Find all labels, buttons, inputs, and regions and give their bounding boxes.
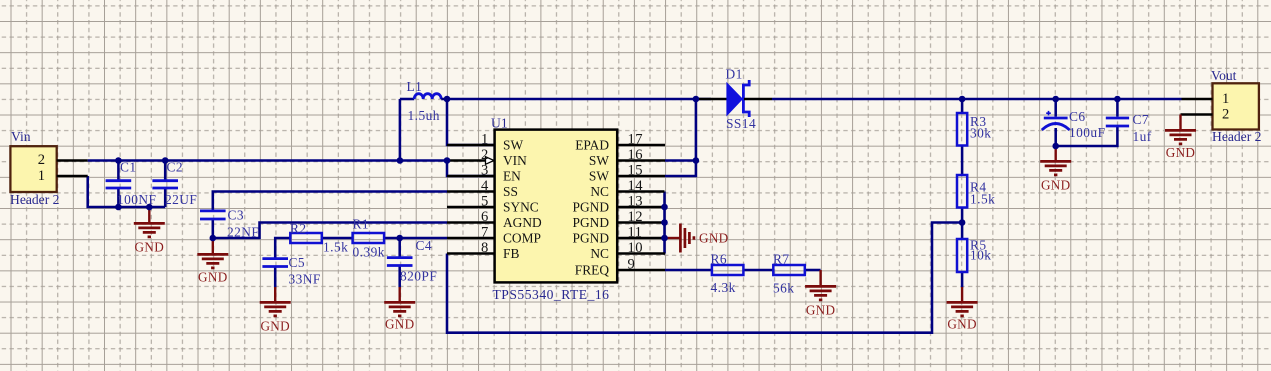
ground GND under C6 — [1040, 146, 1071, 193]
svg-text:C3: C3 — [228, 208, 245, 223]
ground GND sideways at PGND pins — [665, 224, 729, 253]
pin 9 FREQ of U1 — [575, 257, 665, 278]
wire R7 to ground corner — [806, 269, 821, 272]
wire C5 bottom lead — [274, 267, 277, 288]
svg-text:R2: R2 — [290, 221, 307, 236]
wire C7 top lead — [1116, 99, 1119, 117]
svg-text:56k: 56k — [773, 281, 794, 296]
pin 4 SS of U1 — [447, 178, 518, 199]
svg-text:Header 2: Header 2 — [10, 192, 60, 207]
svg-text:PGND: PGND — [573, 215, 610, 230]
pin 12 PGND of U1 — [573, 209, 665, 230]
svg-text:C7: C7 — [1133, 112, 1150, 127]
wire C4 top lead — [398, 238, 401, 257]
svg-text:FREQ: FREQ — [575, 263, 610, 278]
node L1 right SW junction — [444, 96, 451, 103]
pin 13 PGND of U1 — [573, 194, 665, 215]
wire C1 top lead — [117, 161, 120, 181]
wire C2 bottom lead — [164, 189, 167, 207]
wire C1 bottom lead — [117, 189, 120, 207]
svg-text:L1: L1 — [407, 79, 423, 94]
ground GND under C1 C2 — [134, 207, 165, 255]
wire R1 to C4 node to U1 pin 7 — [384, 237, 447, 240]
wire FREQ U1 pin 9 to R6 — [665, 269, 712, 272]
pin 6 AGND of U1 — [447, 209, 542, 230]
wire VIN rail from Vin header pin 2 to U1 pin 2 — [88, 159, 447, 162]
svg-text:GND: GND — [947, 317, 976, 332]
svg-text:VIN: VIN — [503, 153, 527, 168]
svg-text:GND: GND — [198, 270, 227, 285]
pin 15 SW of U1 — [589, 163, 665, 184]
ground GND under R5 — [947, 287, 978, 332]
svg-text:C1: C1 — [120, 160, 137, 175]
node SW pin16 junction — [693, 157, 700, 164]
svg-text:15: 15 — [628, 163, 643, 179]
wire Vin pin1 to ground bus under C1 C2 — [88, 176, 166, 207]
wire R3 top lead — [961, 99, 964, 113]
wire PGND bus U1 pins 14 13 12 11 10 — [663, 192, 666, 254]
svg-text:1uf: 1uf — [1133, 129, 1152, 144]
IC U1 TPS55340 body — [491, 116, 617, 303]
node pin12 PGND junction — [661, 219, 668, 226]
svg-text:SW: SW — [589, 153, 609, 168]
ground GND under R7 — [805, 270, 836, 318]
svg-text:EPAD: EPAD — [575, 138, 609, 153]
diode D1 SS14 schottky — [696, 67, 772, 132]
ground GND under C3 — [197, 238, 228, 285]
svg-text:100uF: 100uF — [1069, 125, 1105, 140]
wire R4 to junction lead — [961, 208, 964, 223]
inductor L1 — [400, 79, 447, 123]
svg-text:Header 2: Header 2 — [1212, 129, 1262, 144]
pin 2 of Vin header — [38, 152, 88, 168]
wire C2 top lead — [164, 161, 167, 181]
svg-text:30k: 30k — [970, 126, 991, 141]
svg-text:SW: SW — [503, 138, 523, 153]
svg-text:1.5k: 1.5k — [970, 192, 995, 207]
capacitor C4 — [387, 238, 437, 284]
wire C6 top lead — [1054, 99, 1057, 117]
wire R6 to R7 segment — [743, 269, 773, 272]
svg-text:10k: 10k — [970, 248, 991, 263]
svg-text:1: 1 — [1222, 91, 1230, 107]
node Vout port label — [1211, 68, 1237, 83]
node C1 top junction — [115, 157, 122, 164]
pin 7 COMP of U1 — [447, 225, 541, 246]
svg-text:NC: NC — [590, 246, 609, 261]
svg-text:22UF: 22UF — [165, 192, 197, 207]
svg-text:FB: FB — [503, 246, 519, 261]
svg-text:C4: C4 — [416, 238, 433, 253]
svg-text:7: 7 — [481, 225, 489, 241]
wire SW pin 15 branch — [665, 161, 696, 177]
node R3 top junction — [959, 96, 966, 103]
node C6 bottom junction — [1052, 143, 1059, 150]
svg-text:12: 12 — [628, 209, 643, 225]
node C3 bottom AGND junction — [210, 235, 217, 242]
svg-text:R6: R6 — [711, 252, 728, 267]
resistor R7 — [773, 252, 805, 296]
pin 10 NC of U1 — [590, 240, 665, 261]
node Vin port label — [11, 129, 31, 144]
connector J Vin header body — [10, 146, 56, 192]
svg-text:22NF: 22NF — [227, 225, 259, 240]
svg-text:13: 13 — [628, 194, 643, 210]
pin 1 of Vout header — [1182, 91, 1230, 107]
node pin11 PGND junction — [661, 235, 668, 242]
wire top rail L1 to D1 anode — [447, 98, 711, 101]
pin 17 EPAD of U1 — [575, 132, 665, 153]
pin 1 SW of U1 — [447, 132, 523, 153]
capacitor C2 — [152, 160, 197, 208]
svg-text:5: 5 — [481, 194, 489, 210]
svg-text:16: 16 — [628, 147, 643, 163]
wire R3 to R4 lead — [961, 146, 964, 176]
svg-text:GND: GND — [1041, 178, 1070, 193]
capacitor C1 — [106, 160, 157, 208]
svg-text:GND: GND — [385, 317, 414, 332]
svg-text:C6: C6 — [1069, 109, 1086, 124]
svg-text:TPS55340_RTE_16: TPS55340_RTE_16 — [493, 287, 610, 302]
node C7 top junction — [1114, 96, 1121, 103]
svg-text:AGND: AGND — [503, 215, 542, 230]
wire top rail D1 cathode to Vout pin 1 — [772, 98, 1182, 101]
node C6 top junction — [1052, 96, 1059, 103]
resistor R2 — [290, 221, 348, 255]
svg-text:8: 8 — [481, 240, 489, 256]
svg-text:C2: C2 — [167, 160, 184, 175]
svg-text:9: 9 — [628, 257, 636, 273]
svg-text:1: 1 — [38, 168, 46, 184]
svg-text:SS14: SS14 — [726, 116, 756, 131]
svg-text:GND: GND — [806, 303, 835, 318]
svg-text:SYNC: SYNC — [503, 200, 539, 215]
wire C3 bottom to AGND junction — [212, 219, 215, 238]
svg-text:GND: GND — [1166, 145, 1195, 160]
wire L1 right junction down to U1 pin 1 SW — [447, 99, 495, 145]
ground GND under Vout pin 2 — [1165, 115, 1196, 161]
pin 3 EN of U1 — [447, 163, 521, 184]
svg-text:R7: R7 — [773, 252, 790, 267]
node D1 anode junction — [693, 96, 700, 103]
label Vin Header 2 comment — [10, 192, 60, 207]
svg-text:EN: EN — [503, 169, 521, 184]
capacitor C6 polarized — [1042, 109, 1106, 140]
svg-text:2: 2 — [38, 152, 46, 168]
svg-text:10: 10 — [628, 240, 643, 256]
svg-text:1.5k: 1.5k — [323, 240, 348, 255]
svg-text:14: 14 — [628, 178, 644, 194]
wire AGND net to U1 pin 6 — [213, 223, 447, 239]
pin 5 SYNC of U1 — [447, 194, 539, 215]
wire R2 to R1 segment COMP net — [322, 237, 353, 240]
svg-text:4: 4 — [481, 178, 489, 194]
pin 2 of Vout header — [1181, 107, 1230, 123]
capacitor C3 — [200, 208, 259, 240]
wire C6 to C7 bottom link — [1056, 127, 1118, 146]
pin 8 FB of U1 — [447, 240, 519, 261]
wire L1 left lead down to VIN rail — [399, 99, 402, 161]
svg-text:C5: C5 — [289, 255, 306, 270]
node C2 top junction — [162, 157, 169, 164]
svg-text:3: 3 — [481, 163, 489, 179]
svg-text:PGND: PGND — [573, 200, 610, 215]
wire D1 junction down to U1 SW pins 16 15 — [665, 99, 696, 161]
node EN tie on rail — [444, 157, 451, 164]
svg-text:U1: U1 — [491, 116, 508, 131]
node L1 left on rail — [397, 157, 404, 164]
svg-text:GND: GND — [699, 231, 728, 246]
svg-text:11: 11 — [628, 225, 643, 241]
pin 11 PGND of U1 — [573, 225, 665, 246]
svg-text:PGND: PGND — [573, 231, 610, 246]
ground GND under C5 — [260, 287, 291, 334]
label Vout Header 2 comment — [1212, 129, 1262, 144]
svg-text:SS: SS — [503, 184, 518, 199]
svg-text:820PF: 820PF — [400, 269, 437, 284]
svg-text:NC: NC — [590, 184, 609, 199]
svg-text:6: 6 — [481, 209, 489, 225]
capacitor C7 — [1106, 112, 1152, 144]
svg-text:GND: GND — [135, 240, 164, 255]
pin 14 NC of U1 — [590, 178, 664, 199]
wire C6 bottom lead to junction — [1054, 128, 1057, 146]
node GND stem junction under C1 C2 — [146, 204, 153, 211]
resistor R4 — [957, 175, 995, 208]
svg-text:COMP: COMP — [503, 231, 541, 246]
wire R5 bottom lead — [961, 272, 964, 288]
ground GND under C4 — [384, 287, 415, 332]
wire SS net C3 top to U1 pin 4 — [213, 192, 447, 211]
svg-text:2: 2 — [1222, 107, 1230, 123]
svg-text:Vout: Vout — [1211, 68, 1237, 83]
wire R2 left lead to C5 — [275, 238, 290, 258]
svg-text:SW: SW — [589, 169, 609, 184]
svg-text:2: 2 — [481, 147, 489, 163]
node pin13 PGND junction — [661, 204, 668, 211]
wire C4 bottom lead — [398, 266, 401, 288]
svg-text:0.39k: 0.39k — [353, 245, 385, 260]
node C1 bottom junction — [115, 204, 122, 211]
resistor R6 — [711, 252, 744, 296]
capacitor C5 — [262, 255, 320, 287]
svg-text:D1: D1 — [726, 67, 743, 82]
node C4 top COMP junction — [396, 235, 403, 242]
wire EN tie VIN rail down to U1 pin 3 — [447, 161, 495, 177]
pin 2 VIN of U1 with input arrow — [447, 147, 527, 168]
resistor R5 — [957, 238, 991, 273]
svg-text:Vin: Vin — [11, 129, 31, 144]
resistor R1 — [353, 217, 385, 260]
resistor R3 — [957, 113, 991, 146]
svg-text:GND: GND — [260, 319, 289, 334]
svg-text:33NF: 33NF — [289, 272, 321, 287]
wire R5 top lead — [961, 223, 964, 240]
svg-text:R1: R1 — [353, 217, 370, 232]
svg-text:1.5uh: 1.5uh — [408, 108, 440, 123]
pin 16 SW of U1 — [589, 147, 665, 168]
pin 1 of Vin header — [38, 168, 88, 184]
svg-text:4.3k: 4.3k — [711, 280, 736, 295]
wire FB net U1 pin 8 down along bottom up to R4 R5 junction — [447, 223, 962, 333]
svg-text:17: 17 — [628, 132, 643, 148]
connector Vout header body — [1213, 83, 1259, 129]
svg-text:1: 1 — [481, 132, 489, 148]
node R4 R5 FB junction — [959, 219, 966, 226]
